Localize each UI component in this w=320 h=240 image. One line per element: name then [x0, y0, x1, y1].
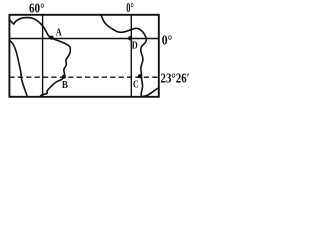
svg-text:B: B: [62, 80, 68, 91]
svg-text:D: D: [132, 40, 138, 51]
svg-text:A: A: [56, 28, 63, 39]
svg-text:C: C: [133, 79, 139, 90]
svg-text:60°: 60°: [29, 2, 45, 17]
svg-text:23°26′: 23°26′: [161, 70, 190, 85]
svg-text:0°: 0°: [162, 33, 173, 48]
svg-text:0°: 0°: [126, 1, 134, 16]
